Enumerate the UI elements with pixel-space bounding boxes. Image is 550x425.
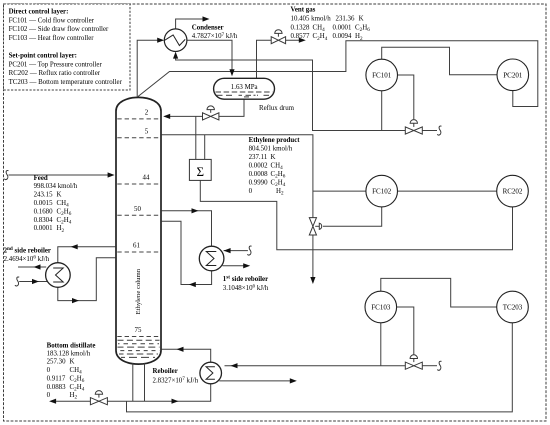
svg-text:0.0094: 0.0094 [333, 33, 353, 40]
drum liquid level dashes [216, 92, 273, 97]
wire: FC102 output to product valve actuator [323, 207, 382, 226]
controller TC203 [497, 291, 529, 323]
svg-text:0.8304: 0.8304 [34, 217, 54, 224]
svg-text:Vent gas: Vent gas [291, 6, 316, 13]
svg-text:FC102: FC102 [372, 188, 392, 196]
svg-text:0.0001: 0.0001 [34, 225, 54, 232]
arrow reboiler hot out [290, 378, 297, 383]
wire: reflux into column [167, 115, 203, 117]
arrow reflux into column [163, 114, 170, 119]
svg-text:K: K [57, 192, 62, 199]
svg-text:Condenser: Condenser [192, 24, 224, 31]
svg-text:0.0001: 0.0001 [333, 24, 353, 31]
wire: FC103 measurement tap [380, 323, 382, 366]
wire: 2nd side reboiler hot outlet [18, 266, 46, 268]
control valve on reboiler hot line (FC103) [405, 355, 422, 369]
wire: vent valve outlet [286, 39, 302, 41]
tray 61 line [117, 251, 159, 253]
svg-text:0.1328: 0.1328 [291, 24, 311, 31]
summation block [189, 159, 211, 180]
wire: PC201 pressure sense from column top [138, 41, 538, 107]
column bottom liquid level dashes [118, 340, 160, 357]
tray 50 line [117, 214, 159, 216]
squiggle break marks [4, 126, 441, 370]
wire: sum output to RC202 [200, 180, 512, 249]
arrow bottoms to reboiler [172, 399, 179, 404]
svg-text:3.1048×106 kJ/h: 3.1048×106 kJ/h [223, 284, 269, 292]
arrow bottom distillate outlet [49, 399, 56, 404]
squiggle coolant source [437, 126, 441, 135]
tray labels [133, 110, 150, 335]
wire: 1st side reboiler hot inlet [224, 250, 248, 252]
control valve on reflux line [203, 106, 219, 120]
svg-text:Σ: Σ [197, 164, 205, 179]
svg-text:2.8327×107 kJ/h: 2.8327×107 kJ/h [153, 376, 199, 384]
svg-text:44: 44 [143, 175, 150, 182]
wire: FC102 to RC202 [398, 190, 497, 192]
svg-text:0: 0 [249, 188, 253, 195]
svg-text:TC203 — Bottom temperature con: TC203 — Bottom temperature controller [9, 79, 123, 86]
arrow 1st reboiler return [189, 282, 196, 287]
svg-text:0.0002: 0.0002 [249, 162, 269, 169]
2nd side reboiler HX [46, 263, 71, 288]
wire: PC201 output cascade to FC101 [382, 47, 497, 75]
controller FC103 [365, 291, 397, 323]
svg-text:0.9990: 0.9990 [249, 179, 269, 186]
wire: coolant valve to squiggle [422, 130, 437, 132]
wire: FC103 output to valve actuator [397, 307, 414, 355]
wire: feed line [9, 174, 112, 176]
arrow condensate into drum [229, 69, 234, 76]
wire: hot valve to squiggle [422, 365, 437, 367]
tray 5 line [117, 137, 159, 139]
reboiler HX [200, 362, 222, 384]
svg-text:0.0883: 0.0883 [47, 384, 67, 391]
svg-text:0.1680: 0.1680 [34, 208, 54, 215]
svg-text:243.15: 243.15 [34, 192, 54, 199]
arrow 2nd reboiler hot in [32, 279, 39, 284]
svg-text:5: 5 [145, 129, 149, 136]
arrow product outlet [310, 277, 315, 284]
arrow tray50 draw [192, 208, 199, 213]
wire: actuator stem [315, 225, 319, 227]
svg-text:Reboiler: Reboiler [153, 368, 178, 375]
arrow tray61 draw [71, 244, 78, 249]
svg-text:4.7827×107 kJ/h: 4.7827×107 kJ/h [192, 32, 238, 40]
wire: reboiler hot inlet from valve [225, 365, 406, 367]
wire: TC203 temperature sense line [127, 323, 513, 412]
svg-text:0.9117: 0.9117 [47, 375, 66, 382]
svg-text:0: 0 [47, 367, 51, 374]
equipment and stream labels [4, 6, 371, 400]
wire: reboiler vapor return [162, 349, 211, 362]
arrow reboiler vapor into column [177, 347, 184, 352]
svg-text:Ethylene product: Ethylene product [249, 137, 301, 144]
svg-text:257.30: 257.30 [47, 359, 67, 366]
control valve on bottom distillate line [90, 391, 107, 405]
wire: FC101 measurement tap [381, 91, 383, 131]
wire: bottoms header to reboiler [53, 384, 211, 402]
svg-text:RC202: RC202 [503, 188, 523, 196]
wire: tray 61 draw to 2nd side reboiler [58, 247, 116, 263]
svg-text:FC101: FC101 [372, 72, 392, 80]
svg-text:RC202 — Reflux ratio controlle: RC202 — Reflux ratio controller [9, 70, 101, 77]
controller FC101 [366, 59, 398, 91]
controller FC102 [366, 175, 398, 207]
squiggle 2nd reboiler hot source [15, 277, 19, 286]
squiggle reboiler hot source [437, 361, 441, 370]
svg-text:TC203: TC203 [503, 304, 523, 312]
arrow reboiler hot in [231, 363, 238, 368]
svg-text:998.034 kmol/h: 998.034 kmol/h [34, 183, 78, 190]
wire: side draw from tray 5 [162, 135, 313, 218]
svg-text:Ethylene column: Ethylene column [135, 268, 142, 314]
control valve on coolant line (FC101) [405, 120, 422, 134]
svg-text:0: 0 [47, 392, 51, 399]
ethylene column vessel [116, 97, 161, 364]
svg-text:K: K [70, 359, 75, 366]
wire: reflux drum vent riser [257, 40, 272, 78]
squiggle feed source [4, 171, 8, 180]
arrow coolant into condenser bottom [173, 52, 178, 59]
arrow 2nd reboiler return [72, 298, 79, 303]
wire: FC102 measurement tap [313, 190, 366, 192]
svg-text:Set-point control layer:: Set-point control layer: [9, 53, 77, 60]
svg-text:PC201 — Top Pressure controlle: PC201 — Top Pressure controller [9, 61, 103, 68]
reflux drum [214, 78, 275, 99]
svg-text:K: K [359, 16, 364, 23]
wire: sum tap from side draw line [204, 135, 206, 160]
wire: sum tap from reflux line [195, 116, 197, 159]
svg-text:Reflux drum: Reflux drum [259, 105, 295, 112]
wire: column bottoms draw 2 [144, 363, 146, 401]
svg-text:2: 2 [145, 110, 149, 117]
svg-text:PC201: PC201 [503, 71, 523, 79]
arrow 2nd reboiler hot out [34, 264, 41, 269]
wire: column overhead vapor to condenser [137, 40, 160, 97]
svg-text:183.128 kmol/h: 183.128 kmol/h [47, 350, 91, 357]
wire: tray 50 draw to 1st side reboiler [162, 211, 212, 247]
svg-text:237.11: 237.11 [249, 154, 268, 161]
arrow coolant outlet [203, 16, 210, 21]
svg-text:Feed: Feed [34, 175, 48, 182]
svg-text:FC103 — Heat flow controller: FC103 — Heat flow controller [9, 35, 95, 42]
1st side reboiler HX [199, 246, 224, 271]
controller PC201 [497, 59, 529, 91]
wire: 1st side reboiler return to column [162, 221, 212, 284]
arrowheads [32, 16, 316, 403]
svg-text:50: 50 [134, 206, 141, 213]
wire: FC101 output to valve actuator [398, 75, 414, 119]
svg-text:2.4694×106 kJ/h: 2.4694×106 kJ/h [4, 254, 50, 262]
svg-text:75: 75 [135, 327, 142, 334]
control valve on vent line [271, 30, 285, 44]
svg-text:Bottom distillate: Bottom distillate [47, 343, 96, 350]
legend text [9, 9, 123, 86]
wire: TC203 output cascade to FC103 [381, 278, 497, 307]
wire: condenser coolant inlet from valve [176, 55, 406, 131]
wire: product line below valve [312, 235, 314, 280]
wire: reflux from drum bottom [219, 99, 244, 116]
wire: condenser coolant outlet [176, 19, 206, 29]
svg-text:0.0008: 0.0008 [249, 171, 269, 178]
arrow vent gas outlet [299, 38, 306, 43]
arrow feed into column [108, 172, 115, 177]
wire: 2nd side reboiler hot inlet [19, 281, 48, 283]
legend box [4, 4, 131, 90]
controller RC202 [497, 175, 529, 207]
wire: reboiler hot outlet [219, 380, 293, 382]
arrow 1st reboiler hot in [224, 248, 231, 253]
svg-text:FC102 — Side draw flow control: FC102 — Side draw flow controller [9, 26, 109, 33]
svg-text:231.36: 231.36 [336, 16, 356, 23]
tray 44 line [117, 183, 159, 185]
svg-text:1.63 MPa: 1.63 MPa [231, 84, 258, 91]
svg-text:1st side reboiler: 1st side reboiler [223, 275, 268, 283]
svg-text:Direct control layer:: Direct control layer: [9, 9, 69, 16]
wire: 1st side reboiler hot outlet [223, 265, 247, 267]
svg-text:804.501 kmol/h: 804.501 kmol/h [249, 145, 293, 152]
arrow into condenser (vapor) [157, 38, 164, 43]
svg-text:FC103: FC103 [371, 304, 391, 312]
svg-text:K: K [271, 154, 276, 161]
control valve on product line (vertical) [309, 218, 321, 235]
condenser E1 [164, 29, 187, 52]
svg-text:0.0015: 0.0015 [34, 200, 54, 207]
wire: condensate to reflux drum [187, 40, 232, 72]
svg-text:10.405 kmol/h: 10.405 kmol/h [291, 16, 332, 23]
svg-text:FC101 — Cold flow controller: FC101 — Cold flow controller [9, 17, 95, 24]
squiggle 1st reboiler hot source [248, 246, 252, 255]
wire: 2nd side reboiler return to column [58, 258, 116, 301]
svg-text:0.8577: 0.8577 [291, 33, 311, 40]
svg-text:61: 61 [133, 243, 140, 250]
wire: column bottoms draw 1 [132, 363, 134, 401]
arrow 1st reboiler hot out [243, 263, 250, 268]
tray 75 line [117, 336, 159, 338]
tray 2 line [117, 118, 159, 120]
